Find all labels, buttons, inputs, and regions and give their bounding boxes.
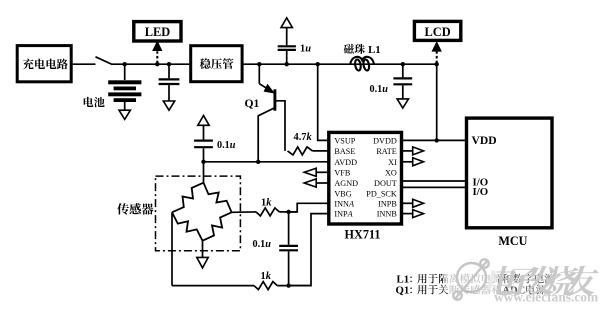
wire switch to regulator bbox=[112, 63, 190, 65]
node INNA net bbox=[286, 210, 290, 214]
resistor 1k top bbox=[256, 208, 279, 216]
node AVDD-cap bbox=[201, 160, 205, 164]
switch S1 bbox=[96, 57, 113, 65]
pin arrow VFB bbox=[316, 171, 329, 173]
bridge resistor bottom-left bbox=[172, 212, 203, 240]
svg-text:Q1: Q1 bbox=[396, 285, 410, 297]
transistor Q1 bar bbox=[273, 89, 276, 110]
node LED arrow junction bbox=[155, 62, 159, 66]
capacitor 0.1u digital bbox=[402, 64, 404, 77]
battery BT1 bbox=[124, 64, 126, 80]
label 磁珠 L1 bbox=[344, 44, 354, 54]
pin arrow INNB bbox=[402, 213, 413, 215]
wire bridge left down bbox=[171, 212, 173, 285]
capacitor 0.1u sensor bbox=[288, 212, 290, 245]
svg-text:0.1u: 0.1u bbox=[370, 84, 389, 95]
svg-text:VSUP: VSUP bbox=[334, 137, 355, 146]
bridge resistor top-right bbox=[204, 183, 232, 213]
capacitor 0.1u AVDD bbox=[203, 148, 205, 162]
node filter cap junction bbox=[167, 62, 171, 66]
svg-text:0.1u: 0.1u bbox=[217, 140, 236, 151]
LCD box bbox=[414, 21, 460, 40]
wire charging to switch bbox=[73, 63, 96, 65]
wire INNA bbox=[289, 203, 329, 212]
watermark blob bbox=[446, 251, 498, 309]
wire rail corner down to VDD bbox=[436, 64, 438, 140]
dashed arrow to LCD bbox=[436, 50, 438, 63]
node 1u cap bbox=[285, 62, 289, 66]
IC MCU box bbox=[467, 118, 553, 228]
node DVDD-VDD bbox=[435, 138, 439, 142]
bridge resistor bottom-right bbox=[203, 212, 232, 240]
svg-text:LCD: LCD bbox=[425, 25, 451, 39]
svg-text:VDD: VDD bbox=[472, 134, 497, 147]
transistor Q1 emitter arrow bbox=[264, 85, 273, 93]
charging-circuit box 充电电路 bbox=[17, 46, 71, 82]
svg-text:L1: L1 bbox=[368, 44, 381, 56]
wire bridge bottom to ground bbox=[202, 241, 204, 258]
watermark wash bbox=[443, 246, 601, 311]
ground below bridge bbox=[197, 257, 208, 268]
svg-text:BASE: BASE bbox=[334, 147, 355, 156]
node battery junction bbox=[123, 62, 127, 66]
svg-text:DOUT: DOUT bbox=[374, 179, 397, 188]
svg-text:0.1u: 0.1u bbox=[253, 239, 272, 250]
wire DVDD to MCU bbox=[402, 139, 467, 141]
svg-text:AGND: AGND bbox=[334, 179, 358, 188]
svg-text:INPB: INPB bbox=[378, 199, 397, 208]
svg-text:XI: XI bbox=[388, 158, 397, 167]
svg-text:I/O: I/O bbox=[473, 186, 489, 198]
svg-text:XO: XO bbox=[385, 168, 397, 177]
svg-text:INPA: INPA bbox=[334, 210, 353, 219]
node Q1 emitter bbox=[257, 62, 261, 66]
pin arrow XI bbox=[402, 161, 413, 163]
wire bottom to 1k bbox=[172, 285, 254, 287]
svg-text:DVDD: DVDD bbox=[373, 137, 397, 146]
label 传感器 bbox=[117, 203, 129, 214]
svg-text:www.elecfans.com: www.elecfans.com bbox=[494, 290, 598, 305]
svg-text:RATE: RATE bbox=[376, 147, 396, 156]
wire VSUP bbox=[318, 64, 329, 140]
LED box bbox=[134, 22, 181, 41]
svg-text:PD_SCK: PD_SCK bbox=[366, 189, 397, 198]
wire 1k top to node bbox=[279, 211, 297, 213]
svg-text:1k: 1k bbox=[261, 271, 272, 282]
resistor 1k bottom bbox=[254, 282, 277, 290]
wire DOUT to MCU bbox=[402, 180, 467, 182]
resistor 4.7k bbox=[288, 147, 313, 155]
ground below 0.1u digital bbox=[397, 99, 408, 108]
svg-text:INNA: INNA bbox=[334, 199, 355, 208]
capacitor C-batt bbox=[168, 64, 170, 78]
node INPA net bbox=[286, 283, 290, 287]
svg-text:INNB: INNB bbox=[377, 210, 398, 219]
sensor dash-dot box bbox=[156, 176, 241, 251]
regulator box 稳压管 bbox=[191, 46, 242, 82]
transistor Q1 collector bbox=[258, 108, 275, 162]
svg-text:VFB: VFB bbox=[334, 168, 350, 177]
wire INPA bbox=[289, 214, 329, 286]
node 0.1u cap bbox=[401, 62, 405, 66]
watermark logo bbox=[453, 259, 488, 299]
svg-text:1u: 1u bbox=[300, 44, 311, 55]
capacitor 1u bbox=[286, 51, 288, 64]
power arrow above 0.1u AVDD bbox=[198, 116, 209, 126]
wire regulator to corner bbox=[244, 63, 437, 65]
ground below battery bbox=[119, 110, 130, 119]
ferrite bead L1 bbox=[350, 57, 374, 64]
bridge resistor top-left bbox=[172, 183, 204, 213]
svg-text:1k: 1k bbox=[261, 198, 272, 209]
wire AVDD bbox=[204, 161, 329, 163]
node AVDD-collector bbox=[256, 160, 260, 164]
svg-text:HX711: HX711 bbox=[345, 228, 381, 242]
ground below C-batt bbox=[163, 101, 174, 110]
node VSUP drop bbox=[316, 62, 320, 66]
wire 1k bottom to node bbox=[277, 285, 311, 287]
svg-text:AVDD: AVDD bbox=[334, 158, 357, 167]
svg-text:LED: LED bbox=[145, 25, 171, 39]
node rail corner bbox=[435, 62, 439, 66]
dashed arrow to LED bbox=[156, 50, 158, 64]
pin arrow RATE bbox=[402, 150, 413, 152]
svg-text:Q1: Q1 bbox=[245, 97, 260, 110]
power arrow above 1u bbox=[281, 18, 292, 28]
svg-text:VBG: VBG bbox=[334, 189, 351, 198]
wire PD_SCK to MCU bbox=[402, 186, 467, 188]
label 电池 bbox=[84, 97, 94, 107]
wire bridge right to 1k bbox=[232, 211, 256, 213]
transistor Q1 emitter wire bbox=[258, 64, 260, 84]
pin arrow AGND bbox=[316, 182, 329, 184]
IC HX711 box bbox=[329, 132, 402, 224]
wire AVDD to bridge top bbox=[203, 162, 205, 183]
pin arrow INPB bbox=[402, 202, 413, 204]
transistor Q1 base wire bbox=[275, 101, 285, 151]
svg-text:4.7k: 4.7k bbox=[294, 132, 313, 143]
watermark text bbox=[485, 266, 601, 296]
